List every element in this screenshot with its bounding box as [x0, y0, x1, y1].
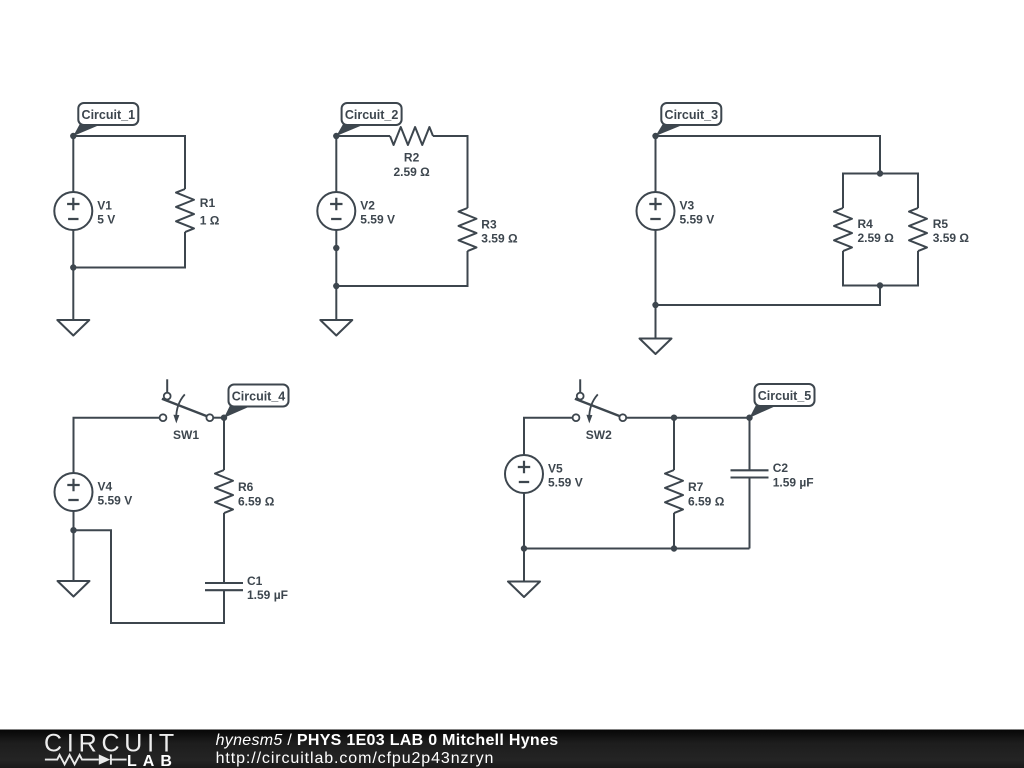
- wire V1 top: [72, 136, 74, 192]
- wire C1 bottom return path: [74, 530, 225, 623]
- wire V3 bottom: [655, 230, 657, 305]
- node junction circuit 2 mid: [333, 245, 339, 251]
- voltage source V4: [55, 473, 133, 511]
- label flag Circuit_4: [224, 385, 289, 418]
- svg-text:R6: R6: [238, 480, 254, 494]
- footer title line: [216, 732, 559, 749]
- wire bottom rail circuit 5: [524, 548, 750, 550]
- wire R7 bottom: [673, 513, 675, 549]
- wire switch to R6 node: [213, 417, 224, 419]
- svg-text:R4: R4: [858, 217, 874, 231]
- wire to ground circuit 3: [655, 305, 657, 339]
- wire top rail circuit 3: [656, 136, 881, 174]
- capacitor C1: [205, 574, 288, 602]
- CircuitLab logo wordmark CIRCUIT: [44, 730, 179, 758]
- wire top rail circuit 1: [73, 136, 185, 189]
- node junction circuit 3 bottom: [652, 302, 658, 308]
- svg-text:2.59 Ω: 2.59 Ω: [393, 165, 430, 179]
- svg-text:5.59 V: 5.59 V: [98, 493, 133, 507]
- svg-text:http://circuitlab.com/cfpu2p43: http://circuitlab.com/cfpu2p43nzryn: [216, 750, 495, 767]
- resistor R3: [459, 208, 518, 251]
- node junction circuit 5 bottom: [521, 545, 527, 551]
- node junction parallel top: [877, 170, 883, 176]
- node junction parallel bottom: [877, 282, 883, 288]
- wire C2 bottom: [749, 478, 751, 549]
- wire R2 to R3: [433, 136, 468, 208]
- voltage source V5: [505, 455, 583, 493]
- wire to ground circuit 4: [73, 530, 75, 581]
- svg-text:Circuit_2: Circuit_2: [345, 108, 399, 122]
- svg-text:R7: R7: [688, 480, 704, 494]
- node junction circuit 5 R7 bottom: [671, 545, 677, 551]
- svg-text:Circuit_5: Circuit_5: [758, 389, 812, 403]
- svg-text:6.59 Ω: 6.59 Ω: [688, 494, 725, 508]
- wire R6 top: [223, 418, 225, 470]
- wire V3 top: [655, 136, 657, 192]
- wire V1 bottom: [72, 230, 74, 268]
- svg-text:Circuit_4: Circuit_4: [232, 390, 286, 404]
- node junction circuit 3 top: [652, 133, 658, 139]
- label flag Circuit_1: [73, 103, 138, 136]
- ground circuit 4: [58, 581, 90, 597]
- wire V5 top rail to switch: [524, 418, 573, 455]
- wire switch to C2 node: [626, 417, 749, 419]
- svg-text:3.59 Ω: 3.59 Ω: [481, 232, 518, 246]
- resistor R4: [834, 208, 894, 251]
- ground circuit 2: [320, 320, 352, 336]
- svg-text:1 Ω: 1 Ω: [200, 213, 220, 227]
- ground circuit 3: [640, 339, 672, 355]
- resistor R7: [665, 470, 725, 513]
- label flag Circuit_5: [750, 384, 815, 418]
- footer url line: [216, 750, 495, 767]
- svg-text:1.59 µF: 1.59 µF: [247, 588, 288, 602]
- node junction circuit 2 bottom: [333, 283, 339, 289]
- svg-text:1.59 µF: 1.59 µF: [773, 475, 814, 489]
- wire to ground circuit 1: [72, 268, 74, 321]
- label flag Circuit_2: [336, 103, 401, 136]
- svg-text:V3: V3: [680, 198, 695, 212]
- logo resistor-diode symbol: [45, 754, 127, 764]
- svg-text:6.59 Ω: 6.59 Ω: [238, 494, 275, 508]
- wire V5 bottom: [523, 493, 525, 549]
- wire R3 bottom rail: [336, 251, 467, 286]
- svg-text:C1: C1: [247, 574, 263, 588]
- wire to ground circuit 5: [523, 549, 525, 582]
- capacitor C2: [731, 461, 814, 489]
- svg-text:2.59 Ω: 2.59 Ω: [858, 231, 895, 245]
- svg-text:R1: R1: [200, 196, 216, 210]
- resistor R5: [909, 208, 969, 251]
- wire R1 bottom rail: [73, 232, 185, 268]
- ground circuit 1: [57, 320, 89, 336]
- ground circuit 5: [508, 582, 540, 598]
- wire parallel top rail: [843, 174, 918, 209]
- svg-text:LAB: LAB: [127, 753, 178, 768]
- voltage source V3: [637, 192, 715, 230]
- svg-text:SW1: SW1: [173, 428, 199, 442]
- wire to ground circuit 2: [335, 286, 337, 320]
- logo wordmark LAB: [127, 753, 178, 768]
- svg-text:R2: R2: [404, 151, 420, 165]
- svg-text:SW2: SW2: [586, 428, 612, 442]
- svg-text:5 V: 5 V: [97, 212, 115, 226]
- wire V2 top: [335, 136, 337, 192]
- wire parallel bottom rail: [843, 251, 918, 286]
- node junction circuit 5 R7 top: [671, 415, 677, 421]
- svg-text:Circuit_3: Circuit_3: [665, 108, 719, 122]
- node junction circuit 1 top: [70, 133, 76, 139]
- svg-text:R5: R5: [933, 217, 949, 231]
- wire V4 bottom: [73, 511, 75, 530]
- node junction circuit 4 bottom: [70, 527, 76, 533]
- wire V4 top rail to switch: [74, 418, 160, 473]
- svg-text:V2: V2: [360, 198, 375, 212]
- switch SW2: [573, 379, 627, 442]
- svg-text:5.59 V: 5.59 V: [680, 212, 715, 226]
- footer bar: [0, 730, 1024, 768]
- voltage source V1: [54, 192, 115, 230]
- svg-text:R3: R3: [481, 218, 497, 232]
- svg-text:V1: V1: [97, 198, 112, 212]
- wire bottom rail circuit 3: [656, 286, 881, 306]
- svg-text:5.59 V: 5.59 V: [548, 475, 583, 489]
- resistor R1: [176, 189, 220, 232]
- node junction circuit 2 top: [333, 133, 339, 139]
- resistor R6: [215, 470, 275, 513]
- wire C2 top: [749, 418, 751, 471]
- wire V2 bottom: [335, 230, 337, 286]
- voltage source V2: [317, 192, 395, 230]
- svg-text:5.59 V: 5.59 V: [360, 212, 395, 226]
- node junction circuit 5 C2 top: [746, 415, 752, 421]
- wire R7 top: [673, 418, 675, 470]
- wire R6 to C1: [223, 513, 225, 583]
- svg-text:C2: C2: [773, 461, 789, 475]
- switch SW1: [160, 379, 214, 442]
- node junction circuit 1 bottom: [70, 264, 76, 270]
- resistor R2: [390, 127, 433, 179]
- svg-text:V5: V5: [548, 461, 563, 475]
- wire V2 to R2: [336, 135, 390, 137]
- svg-text:3.59 Ω: 3.59 Ω: [933, 231, 970, 245]
- node junction circuit 4 switch: [221, 415, 227, 421]
- label flag Circuit_3: [656, 103, 722, 136]
- svg-text:Circuit_1: Circuit_1: [82, 108, 136, 122]
- svg-text:hynesm5 / PHYS 1E03 LAB 0 Mitc: hynesm5 / PHYS 1E03 LAB 0 Mitchell Hynes: [216, 732, 559, 749]
- svg-text:V4: V4: [98, 479, 113, 493]
